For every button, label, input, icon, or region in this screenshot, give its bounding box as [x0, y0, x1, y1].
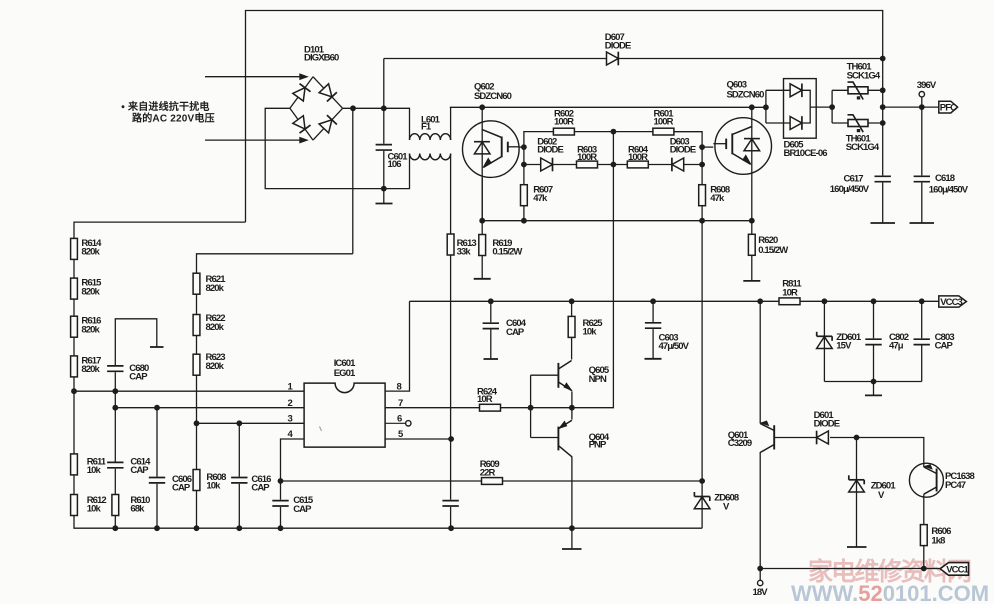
svg-text:10k: 10k: [583, 326, 598, 337]
wire: D607 line: [384, 58, 883, 60]
ground below driver: [562, 548, 582, 550]
rectifier D605 BR10CE-06: [784, 79, 828, 159]
AC input note text: [122, 100, 215, 125]
wire: filter ground stub: [873, 382, 875, 396]
wire: D605 input bracket: [765, 90, 767, 123]
wire: C618 lower stub: [921, 182, 923, 224]
svg-text:100R: 100R: [654, 117, 674, 128]
svg-text:SDZCN60: SDZCN60: [474, 91, 512, 102]
wire: IC pin5 line: [385, 438, 451, 440]
svg-text:106: 106: [388, 159, 402, 170]
svg-text:BR10CE-06: BR10CE-06: [784, 148, 828, 159]
ground for C680 loop: [150, 346, 164, 348]
capacitor C601 106: [374, 144, 408, 170]
wire: C601 ground stub: [383, 189, 385, 204]
ground below R620: [743, 280, 760, 282]
wire: bottom rail ground stub: [571, 528, 573, 549]
wire: pin1 node down to R611: [73, 391, 75, 455]
wire: VCC1 bottom rail: [760, 568, 940, 570]
transistor Q605 NPN: [558, 361, 609, 392]
wire: R622-R623 link: [196, 336, 198, 354]
transistor Q601 C3209: [728, 421, 774, 453]
svg-text:8: 8: [397, 381, 402, 392]
wire: pin1 node down through C614: [114, 391, 116, 462]
ground below C601: [376, 203, 393, 205]
resistor R610 68k: [112, 495, 150, 516]
svg-text:SCK1G4: SCK1G4: [846, 142, 880, 153]
wire: C601 bottom stub: [383, 150, 385, 189]
wire: C604 vertical: [490, 301, 492, 359]
wire: Q605 emitter to output node: [571, 392, 573, 408]
wire: right main vertical to C617: [882, 59, 884, 177]
wire: D601 anode line to PC1638: [830, 438, 924, 464]
wire: L601 bottom to R613 long vertical: [450, 154, 452, 529]
diode D607: [605, 32, 631, 65]
wire: D605 bottom diode row: [766, 122, 796, 124]
zener ZD608 V: [694, 492, 739, 513]
capacitor C606 CAP: [147, 474, 192, 493]
svg-text:DIGXB60: DIGXB60: [304, 53, 339, 64]
AC input arrow upper: [299, 73, 309, 80]
wire: AC input upper: [205, 76, 306, 78]
AC input arrow lower: [299, 137, 309, 144]
svg-text:160μ/450V: 160μ/450V: [929, 185, 969, 196]
svg-text:VCC1: VCC1: [946, 564, 969, 575]
ground below C617: [871, 222, 896, 224]
svg-text:100R: 100R: [577, 152, 597, 163]
opto transistor PC1638 PC47: [909, 463, 974, 497]
wire: C601 top stub: [383, 108, 385, 145]
wire: C802 vertical: [873, 301, 875, 381]
svg-text:3: 3: [288, 413, 293, 424]
svg-text:CAP: CAP: [506, 327, 525, 338]
svg-text:0.15/2W: 0.15/2W: [758, 245, 788, 256]
wire: Q601 emitter feed from VCC3 rail: [759, 301, 761, 423]
svg-text:C3209: C3209: [728, 438, 752, 449]
wire: R620 to ground: [751, 256, 753, 281]
svg-text:PC47: PC47: [945, 480, 966, 491]
capacitor C803 CAP: [912, 332, 955, 352]
resistor R608 10k: [193, 470, 226, 492]
diode D603: [670, 136, 696, 171]
wire: R606 to VCC1 rail: [923, 545, 925, 568]
wire: Q602 source vertical: [481, 177, 483, 220]
svg-text:820k: 820k: [206, 361, 225, 372]
svg-text:160μ/450V: 160μ/450V: [830, 184, 870, 195]
resistor R607 47k: [521, 184, 553, 205]
wire: R615-R616 link: [73, 299, 75, 316]
wire: R625 to Q605 collector: [571, 337, 573, 360]
resistor R811 10R: [779, 279, 802, 305]
svg-text:NPN: NPN: [589, 374, 607, 385]
capacitor C617 160u/450V: [830, 174, 893, 195]
wire: C617 lower stub to ground: [882, 182, 884, 224]
capacitor C614 CAP: [105, 456, 151, 476]
wire: R614 chain top link: [74, 222, 246, 238]
wire: collector top line Q602-Q603-D605: [450, 106, 766, 108]
svg-text:18V: 18V: [753, 587, 769, 598]
resistor R621 820k: [193, 273, 226, 294]
svg-text:10k: 10k: [87, 465, 102, 476]
op-amp IC601 EG01: [304, 358, 385, 447]
node 396V terminal: [917, 80, 937, 97]
wire: driver base vertical: [530, 375, 532, 437]
svg-text:15V: 15V: [836, 341, 852, 352]
svg-text:820k: 820k: [206, 322, 225, 333]
resistor R608 47k: [699, 184, 730, 205]
wire: R620 stub: [751, 221, 753, 234]
svg-text:47μ/50V: 47μ/50V: [659, 341, 690, 352]
transistor Q602 SDZCN60: [463, 81, 520, 220]
zener ZD601 V: [849, 475, 897, 501]
capacitor C615 CAP: [271, 495, 314, 515]
svg-text:47k: 47k: [533, 193, 548, 204]
resistor R615 820k: [71, 278, 103, 300]
ground below C604: [484, 358, 499, 360]
wire: R621 chain top link from bridge sense: [197, 254, 353, 273]
svg-text:CAP: CAP: [251, 482, 270, 493]
capacitor C616 CAP: [229, 474, 271, 493]
diode D601: [814, 410, 840, 444]
wire: R612 to bottom rail corner: [74, 515, 702, 528]
wire: TH601 input bracket: [831, 90, 833, 123]
svg-text:100R: 100R: [554, 117, 574, 128]
wire: 18V terminal stub: [759, 569, 761, 581]
svg-text:820k: 820k: [81, 325, 100, 336]
wire: IC pin1 line: [74, 390, 304, 392]
wire: Q604 collector to bottom rail: [571, 457, 573, 529]
pin 6: [385, 413, 411, 426]
wire: C616 vertical: [238, 423, 240, 477]
wire: R623 down to pin3 node: [196, 376, 198, 424]
svg-text:DIODE: DIODE: [814, 418, 840, 429]
svg-text:PNP: PNP: [589, 439, 607, 450]
wire: D605 output line: [810, 106, 832, 108]
wire: Q604 base stub: [531, 437, 559, 439]
svg-text:10k: 10k: [87, 504, 102, 515]
resistor R623 820k: [193, 352, 225, 375]
wire: 396V terminal stub: [921, 97, 923, 107]
svg-text:路的AC 220V电压: 路的AC 220V电压: [132, 112, 215, 125]
wire: R616-R617 link: [73, 338, 75, 356]
wire: IC pin4 route to C615 node: [281, 439, 305, 481]
diode D602: [537, 136, 563, 171]
thermistor TH601 top: [847, 61, 881, 99]
wire: bridge output line: [343, 108, 410, 140]
wire: VCC3 filter bottom link: [824, 381, 921, 383]
wire: VCC3 rail: [410, 300, 940, 302]
wire: ZD601 stub from D601 node through zener: [856, 438, 858, 548]
wire: C614 to R610: [114, 468, 116, 495]
svg-text:C618: C618: [935, 173, 955, 184]
wire: TH601 top row: [832, 89, 883, 91]
svg-text:DIODE: DIODE: [605, 41, 631, 52]
ground below VCC3 filter: [865, 394, 882, 396]
wire: IC pin8 route to VCC3 rail: [385, 301, 409, 391]
svg-text:CAP: CAP: [172, 482, 191, 493]
wire: gate row right vertical (Q603): [673, 132, 702, 185]
resistor R601 100R: [653, 109, 674, 135]
wire: C803 vertical: [921, 301, 923, 381]
ground below ZD601 V: [847, 546, 867, 548]
wire: C603 vertical: [652, 301, 654, 359]
resistor R611 10k: [71, 454, 107, 476]
capacitor C603 47u/50V: [643, 322, 690, 352]
node dots: [71, 56, 927, 572]
capacitor unlabeled near pin5: [441, 500, 461, 507]
svg-text:CAP: CAP: [935, 341, 954, 352]
capacitor C680 CAP: [105, 363, 149, 383]
svg-text:10R: 10R: [782, 288, 798, 299]
wire: R619 stub: [481, 221, 483, 236]
svg-text:DIODE: DIODE: [670, 144, 696, 155]
ground below C603: [645, 358, 662, 360]
wire: D607 branch vertical: [383, 59, 385, 109]
wire: AC input lower: [205, 139, 306, 141]
resistor R604 100R: [627, 144, 648, 168]
wire: Q602 gate stub: [519, 146, 524, 148]
svg-text:33k: 33k: [457, 247, 472, 258]
svg-text:SDZCN60: SDZCN60: [727, 89, 765, 100]
wire: C606 to bottom rail: [156, 483, 158, 528]
resistor R622 820k: [193, 313, 225, 336]
wire: D605 top diode row: [766, 89, 796, 91]
svg-text:来自进线抗干扰电: 来自进线抗干扰电: [127, 100, 210, 113]
wire: R621-R622 link: [196, 295, 198, 315]
thermistor TH601 bottom: [846, 115, 880, 153]
wire: C606 vertical: [156, 408, 158, 477]
svg-text:47k: 47k: [710, 193, 725, 204]
svg-text:F1: F1: [421, 122, 432, 133]
svg-text:VCC3: VCC3: [940, 297, 962, 308]
wire: top 396V sense rail: [246, 11, 883, 223]
svg-text:DIODE: DIODE: [537, 144, 563, 155]
wire: IC pin3 line: [197, 422, 305, 424]
wire: R617 to pin1 node: [73, 377, 75, 391]
wire: bridge negative return loop: [265, 108, 409, 188]
wire: PC1638 emitter to R606: [923, 497, 925, 525]
wire: R614-R615 link: [73, 260, 75, 278]
resistor R617 820k: [71, 355, 102, 377]
capacitor C802 47u: [864, 332, 909, 352]
node VCC3 flag: [939, 296, 967, 308]
wire: Q604 emitter from output node: [571, 408, 573, 420]
node 18V terminal: [753, 580, 769, 598]
svg-text:820k: 820k: [81, 247, 100, 258]
node VCC1 flag: [940, 563, 969, 576]
wire: PFC output line: [883, 106, 940, 108]
wire: R611-R612 link: [73, 473, 75, 494]
svg-text:10k: 10k: [206, 480, 221, 491]
capacitor C604 CAP: [481, 318, 527, 338]
svg-text:EG01: EG01: [334, 368, 356, 379]
capacitor C618 160u/450V: [912, 173, 969, 196]
svg-text:68k: 68k: [130, 504, 145, 515]
bridge rectifier D101 DIGXB60: [290, 44, 343, 140]
svg-text:820k: 820k: [81, 364, 100, 375]
wire: rail down through ZD608 to bottom rail: [701, 221, 703, 529]
wire: ZD601(15V) stub from rail through zener: [823, 301, 825, 381]
svg-text:2: 2: [288, 398, 293, 409]
resistor R614 820k: [71, 238, 103, 260]
wire: R607 to rail: [523, 206, 525, 221]
resistor R616 820k: [71, 316, 102, 338]
resistor R603 100R: [577, 144, 598, 168]
resistor R612 10k: [71, 495, 107, 516]
wire: R625 vertical: [571, 301, 573, 316]
wire: C680 bottom to pin1 line: [114, 372, 116, 391]
wire: source/emitter rail: [482, 220, 752, 222]
svg-text:CAP: CAP: [293, 504, 312, 515]
wire: Q605 base stub: [531, 374, 559, 376]
svg-text:1k8: 1k8: [931, 536, 945, 547]
wire: R608 to rail: [701, 206, 703, 221]
wire: Q601 base line to D601: [774, 437, 816, 439]
wire: bridge output sense vertical: [352, 108, 354, 254]
resistor R606 1k8: [920, 525, 951, 547]
wire: Q603 gate stub: [702, 146, 713, 148]
svg-text:396V: 396V: [917, 80, 937, 91]
ground below R619: [474, 278, 491, 280]
wire: D605 output bracket: [802, 90, 811, 123]
svg-text:7: 7: [398, 398, 403, 409]
wire: C680 top loop to ground: [115, 319, 157, 366]
wire: C615 to bottom rail: [280, 481, 282, 528]
svg-text:6: 6: [397, 413, 402, 424]
svg-text:0.15/2W: 0.15/2W: [492, 247, 522, 258]
svg-text:CAP: CAP: [129, 372, 148, 383]
svg-text:22R: 22R: [480, 468, 496, 479]
ground below C618: [910, 222, 935, 224]
resistor R609 22R: [480, 459, 503, 484]
wire: L601 top coil right riser: [450, 107, 452, 140]
wire: R610 to bottom rail: [114, 515, 116, 528]
wire: Q603 source vertical: [751, 176, 753, 220]
svg-text:PFC: PFC: [940, 103, 957, 114]
resistor R602 100R: [553, 109, 574, 135]
svg-text:SCK1G4: SCK1G4: [847, 71, 881, 82]
wire: top gate row: [554, 131, 702, 133]
svg-text:820k: 820k: [206, 283, 225, 294]
wire: IC pin7 line through R624 to driver bases: [385, 407, 572, 409]
zener ZD601 15V: [817, 332, 862, 352]
wire: gate row left vertical (Q602): [524, 132, 554, 185]
wire: R619 to ground: [481, 255, 483, 279]
resistor R625 10k: [568, 316, 603, 337]
wire: gate-drive vertical from gate network to driver output: [572, 132, 614, 408]
wire: IC pin2 line: [115, 407, 304, 409]
svg-text:100R: 100R: [628, 152, 648, 163]
wire: Q601 collector down to 18V node: [759, 452, 761, 569]
resistor R624 10R: [477, 386, 501, 411]
wire: C616 to bottom rail: [238, 483, 240, 528]
wire: middle gate row: [524, 164, 702, 166]
wire: C618 vertical: [921, 107, 923, 176]
wire: pin3 node to R608: [196, 423, 198, 470]
svg-text:47μ: 47μ: [889, 341, 904, 352]
resistor R620 0.15/2W: [748, 234, 788, 256]
resistor R613 33k: [447, 234, 476, 258]
wire: R608 to bottom rail: [196, 490, 198, 528]
wire: R609 line: [281, 480, 703, 482]
svg-text:WWW.520101.COM: WWW.520101.COM: [791, 581, 989, 604]
wire: TH601 bottom row: [832, 122, 883, 124]
svg-text:820k: 820k: [81, 287, 100, 298]
node PFC flag: [939, 101, 958, 114]
transistor Q603 SDZCN60: [713, 80, 771, 177]
svg-text:10R: 10R: [477, 394, 493, 405]
resistor R619 0.15/2W: [479, 235, 523, 258]
svg-text:CAP: CAP: [130, 465, 149, 476]
transistor Q604 PNP: [558, 420, 610, 457]
inductor L601 F1: [410, 114, 451, 160]
svg-text:ZD601: ZD601: [871, 480, 897, 491]
